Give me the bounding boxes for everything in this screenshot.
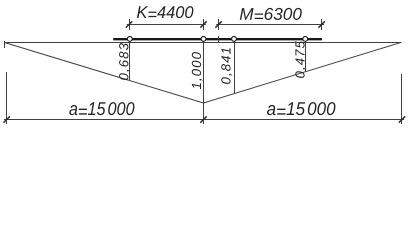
right hypotenuse wire — [204, 42, 402, 103]
node circle 4 — [303, 37, 308, 42]
tick on bar at x=218.5 — [218, 36, 220, 43]
ordinate label 1,000 — [192, 52, 203, 89]
left hypotenuse wire — [5, 43, 204, 104]
ordinate line x=129 — [129, 42, 131, 81]
K dimension line — [127, 24, 206, 26]
left apex tick — [4, 41, 6, 48]
bottom left extension — [6, 72, 8, 124]
M left extension — [218, 19, 220, 30]
node circle 2 — [201, 37, 206, 42]
tick M left — [215, 21, 221, 27]
tick bottom center — [200, 116, 206, 122]
label a=15000 left — [69, 102, 134, 115]
label a=15000 right — [267, 102, 335, 115]
bottom dimension line — [4, 119, 404, 121]
bottom right extension — [401, 74, 403, 124]
ordinate label 0,841 — [221, 48, 232, 84]
label M=6300 — [240, 8, 302, 20]
dimension slash ticks — [4, 21, 406, 122]
ordinate line x=203.5 (center) — [203, 42, 205, 104]
tick bottom right — [399, 116, 405, 122]
ordinate line x=234.2 — [234, 42, 236, 94]
node circle 1 — [127, 37, 132, 42]
bottom center extension — [203, 103, 205, 124]
M right extension — [321, 19, 323, 30]
M dimension line — [216, 24, 324, 26]
thick bar (top chord) — [113, 38, 322, 40]
K right extension — [203, 19, 205, 30]
tick K left — [126, 21, 132, 27]
ordinate label 0,683 — [119, 43, 130, 80]
ordinate line x=305 — [305, 42, 307, 73]
node circle 3 — [232, 37, 237, 42]
tick K right — [200, 21, 206, 27]
tick bottom left — [4, 116, 10, 122]
ordinate label 0,475 — [295, 41, 306, 78]
tick M right — [319, 21, 325, 27]
K left extension — [129, 19, 131, 30]
label K=4400 — [137, 6, 193, 18]
baseline (top horizontal thin line) — [5, 42, 402, 44]
